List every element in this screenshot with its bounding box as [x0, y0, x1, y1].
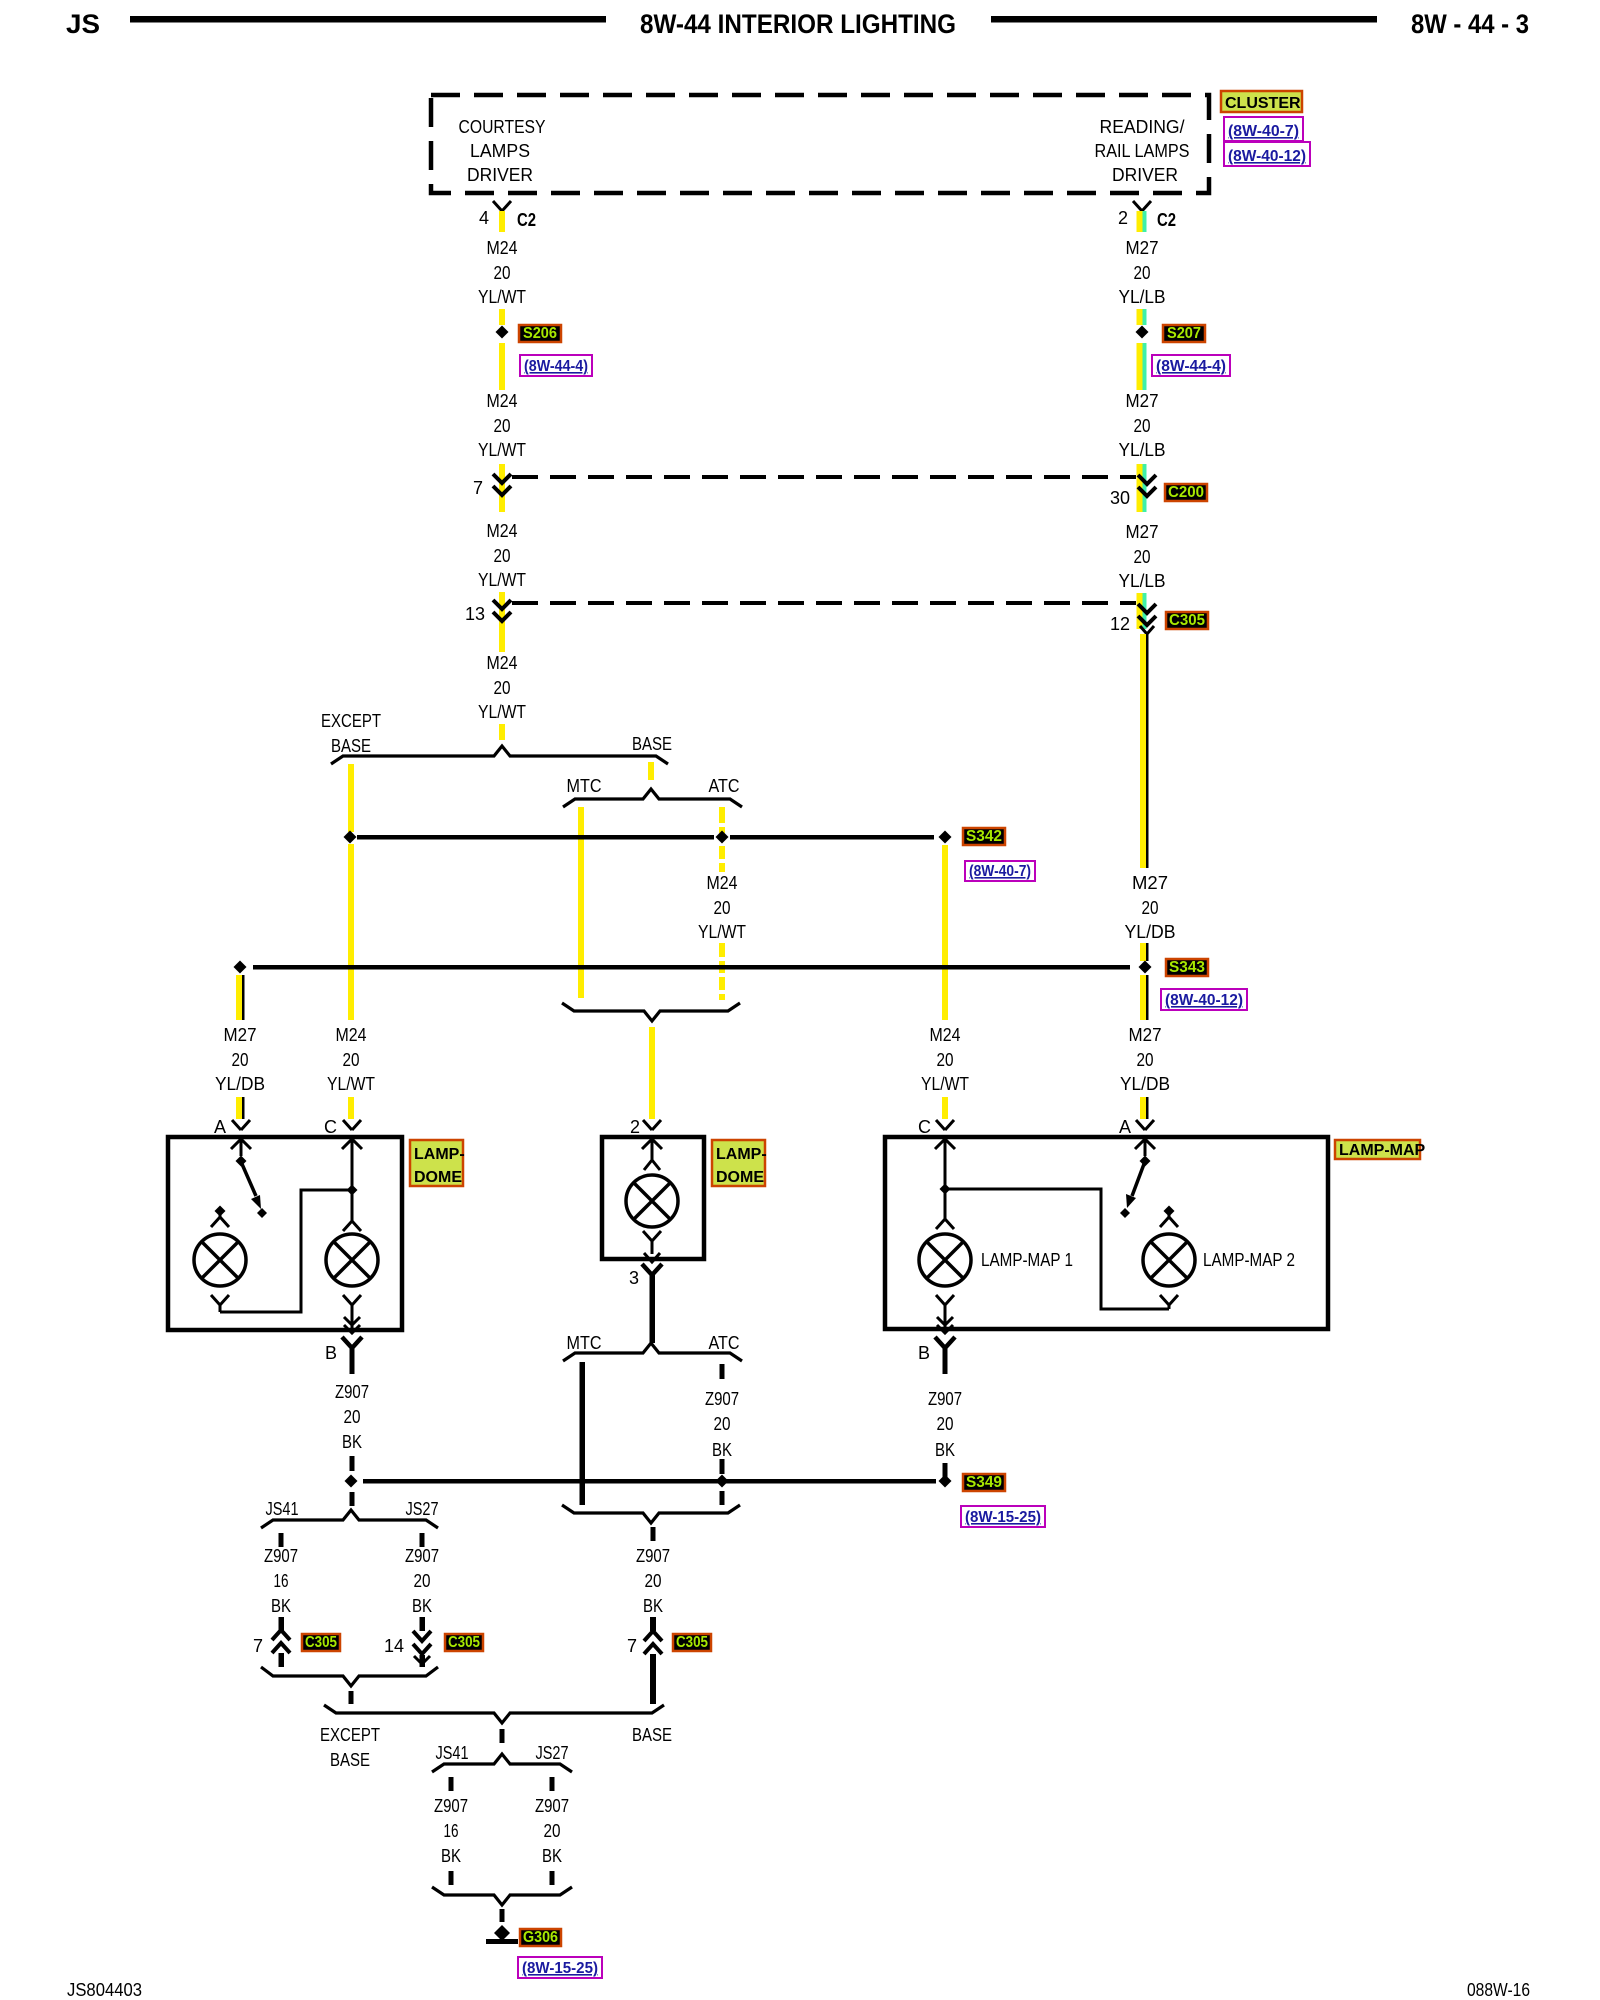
ground wire dash above S349 ATC: [720, 1459, 725, 1474]
svg-text:(8W-40-7): (8W-40-7): [1228, 123, 1299, 140]
svg-text:20: 20: [1137, 1050, 1154, 1070]
svg-text:16: 16: [274, 1571, 289, 1591]
link 8W-44-4 S207: [1152, 355, 1230, 376]
split brace MTC / ATC lower: [563, 1343, 742, 1361]
splice S349 junction left: [345, 1475, 358, 1488]
svg-text:G306: G306: [523, 1929, 558, 1946]
wire segment above C305: [499, 592, 505, 652]
pin 2 lamp-dome center: [643, 1120, 661, 1130]
svg-text:C200: C200: [1168, 484, 1204, 501]
svg-text:20: 20: [1134, 547, 1151, 567]
svg-text:14: 14: [384, 1636, 404, 1656]
lamp courtesy 1: [194, 1234, 246, 1286]
svg-text:20: 20: [414, 1571, 431, 1591]
connector C305 pin 12 chevrons: [1138, 604, 1156, 613]
pin C lamp-map: [936, 1120, 954, 1130]
switch blade lamp-dome: [242, 1164, 256, 1196]
svg-text:LAMP-MAP 1: LAMP-MAP 1: [981, 1250, 1073, 1270]
label LAMP-DOME center: [712, 1140, 767, 1186]
svg-text:20: 20: [714, 898, 731, 918]
svg-text:JS27: JS27: [406, 1499, 439, 1519]
svg-text:(8W-15-25): (8W-15-25): [965, 1509, 1041, 1526]
svg-text:M24: M24: [930, 1025, 961, 1045]
lamp map 2 bottom terminal: [1160, 1295, 1178, 1309]
pin 2 terminal inside: [642, 1139, 662, 1149]
svg-text:(8W-40-12): (8W-40-12): [1165, 992, 1243, 1009]
splice S349 junction right: [939, 1475, 952, 1488]
wire segment below S206: [499, 343, 505, 390]
pin C terminal inside lamp-map: [935, 1139, 955, 1149]
svg-text:READING/: READING/: [1100, 117, 1185, 137]
svg-text:M27: M27: [224, 1025, 257, 1045]
svg-text:(8W-40-7): (8W-40-7): [969, 863, 1031, 880]
svg-text:13: 13: [465, 604, 485, 624]
splice bus S349: [363, 1479, 936, 1484]
ground wire dash JS27 bottom: [550, 1777, 555, 1791]
svg-text:C305: C305: [305, 1634, 337, 1651]
svg-text:20: 20: [343, 1050, 360, 1070]
split brace JS41 / JS27 left: [261, 1510, 438, 1528]
svg-text:C305: C305: [448, 1634, 480, 1651]
connector C200 pin 30 chevrons: [1138, 475, 1156, 484]
lamp-dome center module box: [602, 1137, 704, 1259]
header rule left: [130, 16, 606, 23]
wire lamp1 to pin C riser: [220, 1190, 352, 1312]
svg-text:20: 20: [937, 1050, 954, 1070]
switch contact lamp-dome: [215, 1206, 226, 1217]
pin A terminal inside: [231, 1139, 251, 1149]
svg-text:7: 7: [627, 1636, 637, 1656]
label C200: [1165, 484, 1207, 501]
wire stub to lamp-dome pin A: [236, 1097, 242, 1119]
wire stub to lamp-map pin C: [942, 1097, 948, 1119]
ground wire dash below S349 ATC: [720, 1491, 725, 1505]
wire base branch stub: [648, 762, 654, 780]
wire ATC yellow dashed below S342: [719, 846, 725, 859]
svg-text:Z907: Z907: [636, 1546, 670, 1566]
connector C305 pin 13 chevrons: [493, 600, 511, 609]
svg-text:CLUSTER: CLUSTER: [1225, 95, 1301, 112]
splice S342 junction left: [344, 831, 357, 844]
splice bus S342: [357, 835, 714, 840]
svg-text:3: 3: [629, 1268, 639, 1288]
svg-text:M27: M27: [1132, 873, 1168, 893]
pin C lamp-dome: [343, 1120, 361, 1130]
svg-text:DOME: DOME: [716, 1169, 764, 1186]
connector C200 pin 7 chevrons: [493, 474, 511, 483]
link 8W-44-4 S206: [520, 355, 592, 376]
label S206: [519, 325, 561, 342]
svg-text:DRIVER: DRIVER: [1112, 165, 1178, 185]
wire M24 segment from C2: [499, 211, 505, 232]
wire M27 YL/DB right below S343: [1140, 975, 1146, 1020]
svg-text:A: A: [1119, 1117, 1131, 1137]
svg-text:BK: BK: [271, 1596, 291, 1616]
lamp dome center top terminal: [644, 1160, 660, 1170]
svg-text:M27: M27: [1126, 238, 1159, 258]
wire M27 YL/DB left segment: [236, 975, 242, 1020]
wire to lamp-dome pin 2: [649, 1027, 655, 1119]
label S207: [1163, 325, 1205, 342]
connector C2 pin 2: [1133, 201, 1151, 211]
svg-text:C: C: [324, 1117, 337, 1137]
wire segment below S207: [1137, 343, 1143, 390]
svg-text:EXCEPT: EXCEPT: [320, 1725, 380, 1745]
pin A terminal inside lamp-map: [1135, 1139, 1155, 1149]
svg-text:A: A: [214, 1117, 226, 1137]
lamp courtesy 2 bottom terminal: [343, 1295, 361, 1329]
ground wire dash JS41: [279, 1533, 284, 1547]
svg-text:8W-44 INTERIOR LIGHTING: 8W-44 INTERIOR LIGHTING: [640, 9, 956, 39]
svg-text:M27: M27: [1126, 391, 1159, 411]
wire segment above base split: [499, 724, 505, 740]
svg-text:8W - 44 - 3: 8W - 44 - 3: [1411, 9, 1529, 39]
svg-text:BK: BK: [441, 1846, 461, 1866]
svg-text:20: 20: [937, 1414, 954, 1434]
svg-text:20: 20: [544, 1821, 561, 1841]
svg-text:16: 16: [444, 1821, 459, 1841]
wire lamp-map C to lamp2 bottom: [945, 1189, 1169, 1309]
svg-text:S343: S343: [1169, 959, 1205, 976]
svg-text:088W-16: 088W-16: [1467, 1980, 1530, 2000]
dashed bus line C200: [512, 475, 1136, 479]
ground G306 symbol: [494, 1925, 510, 1941]
svg-text:C305: C305: [676, 1634, 708, 1651]
svg-text:(8W-44-4): (8W-44-4): [524, 358, 588, 375]
svg-text:JS41: JS41: [266, 1499, 299, 1519]
wire M24 except-base branch upper: [348, 764, 354, 832]
svg-text:MTC: MTC: [567, 776, 602, 796]
ground wire dash JS41 bottom: [449, 1777, 454, 1791]
svg-text:JS: JS: [66, 9, 100, 39]
wire MTC yellow: [578, 807, 584, 998]
wire ATC yellow dashed below label: [719, 943, 725, 957]
svg-text:YL/WT: YL/WT: [478, 570, 526, 590]
svg-text:ATC: ATC: [709, 1333, 740, 1353]
lamp courtesy 2 top terminal: [343, 1221, 361, 1231]
switch blade lamp-map: [1132, 1164, 1144, 1196]
label S343: [1166, 959, 1208, 976]
label C305 base: [673, 1634, 711, 1651]
switch contact lamp-map: [1164, 1206, 1175, 1217]
split brace except-base / base: [331, 746, 668, 764]
svg-text:YL/LB: YL/LB: [1119, 287, 1166, 307]
svg-text:YL/LB: YL/LB: [1119, 571, 1166, 591]
wire segment above C200 right: [1137, 464, 1143, 512]
header rule right: [991, 16, 1377, 23]
svg-text:Z907: Z907: [535, 1796, 569, 1816]
pin C terminal inside: [342, 1139, 362, 1149]
splice S342 junction right: [939, 831, 952, 844]
svg-text:(8W-44-4): (8W-44-4): [1156, 358, 1226, 375]
ground wire Z907 from pin 3: [650, 1273, 656, 1343]
lamp map 2: [1143, 1234, 1195, 1286]
merge brace MTC / ATC: [562, 1003, 740, 1021]
svg-text:BK: BK: [412, 1596, 432, 1616]
pin A lamp-map: [1136, 1120, 1154, 1130]
ground wire dash below merge left: [349, 1691, 354, 1704]
svg-text:S206: S206: [523, 325, 557, 342]
label C305 mid: [445, 1634, 483, 1651]
svg-text:Z907: Z907: [434, 1796, 468, 1816]
svg-text:12: 12: [1110, 614, 1130, 634]
lamp map 1 top terminal: [936, 1219, 954, 1229]
lamp-dome center exit chevron: [644, 1253, 660, 1262]
svg-text:LAMP-: LAMP-: [716, 1146, 767, 1163]
svg-text:Z907: Z907: [405, 1546, 439, 1566]
splice S343 junction left: [234, 961, 247, 974]
lamp-dome left module box: [168, 1137, 402, 1330]
lamp map 2 top terminal: [1160, 1214, 1178, 1227]
svg-text:BASE: BASE: [632, 734, 672, 754]
svg-text:BK: BK: [935, 1440, 955, 1460]
label CLUSTER: [1221, 91, 1302, 112]
wire S342-right to lamp-map yellow: [942, 845, 948, 1020]
lamp-map module box: [885, 1137, 1328, 1329]
svg-text:YL/WT: YL/WT: [327, 1074, 375, 1094]
svg-text:YL/DB: YL/DB: [215, 1074, 265, 1094]
svg-text:Z907: Z907: [264, 1546, 298, 1566]
svg-text:DOME: DOME: [414, 1169, 462, 1186]
svg-text:M24: M24: [487, 653, 518, 673]
label S342: [963, 828, 1005, 845]
svg-text:C2: C2: [517, 210, 536, 230]
svg-text:B: B: [325, 1343, 337, 1363]
label LAMP-DOME left: [410, 1140, 465, 1186]
svg-text:BASE: BASE: [330, 1750, 370, 1770]
ground wire dash above S349 left: [350, 1456, 355, 1471]
splice bus S343: [253, 965, 1130, 970]
lamp map 1 bottom terminal: [936, 1295, 954, 1329]
svg-text:BASE: BASE: [632, 1725, 672, 1745]
svg-text:Z907: Z907: [335, 1382, 369, 1402]
svg-text:B: B: [918, 1343, 930, 1363]
lamp map 1: [919, 1234, 971, 1286]
connector C305 pin 7 left: [279, 1617, 285, 1631]
wire segment above S207: [1137, 309, 1143, 325]
svg-text:M24: M24: [487, 521, 518, 541]
svg-text:LAMP-MAP 2: LAMP-MAP 2: [1203, 1250, 1295, 1270]
svg-text:S207: S207: [1167, 325, 1201, 342]
svg-text:(8W-40-12): (8W-40-12): [1228, 148, 1306, 165]
svg-text:JS41: JS41: [436, 1743, 469, 1763]
svg-text:M24: M24: [707, 873, 738, 893]
split brace JS41 / JS27 bottom: [432, 1754, 572, 1772]
lamp courtesy 1 bottom terminal: [211, 1295, 229, 1312]
connector C2 pin 4: [493, 201, 511, 211]
switch pivot lamp-dome: [236, 1156, 247, 1167]
label C305 left: [302, 1634, 340, 1651]
svg-text:YL/WT: YL/WT: [921, 1074, 969, 1094]
link 8W-40-7 cluster: [1224, 117, 1303, 141]
ground wire dash below S349 left: [350, 1492, 355, 1506]
splice S207: [1136, 326, 1149, 339]
svg-text:YL/LB: YL/LB: [1119, 440, 1166, 460]
svg-text:2: 2: [1118, 208, 1128, 228]
svg-text:DRIVER: DRIVER: [467, 165, 533, 185]
connector C305 pin 14 left: [420, 1617, 426, 1631]
merge brace JS41+JS27 left: [261, 1667, 438, 1686]
svg-text:MTC: MTC: [567, 1333, 602, 1353]
junction lamp-dome C: [347, 1185, 358, 1196]
lamp dome center bottom terminal: [643, 1231, 661, 1254]
svg-text:C2: C2: [1157, 210, 1176, 230]
wire M27 segment from C2: [1137, 211, 1143, 232]
svg-text:2: 2: [630, 1117, 640, 1137]
wire segment above S343 right: [1140, 943, 1146, 961]
svg-text:20: 20: [232, 1050, 249, 1070]
wire M27 YL/DB long segment below C305: [1140, 634, 1146, 868]
svg-text:M27: M27: [1129, 1025, 1162, 1045]
svg-text:M24: M24: [487, 391, 518, 411]
dashed bus line C305: [512, 601, 1136, 605]
ground wire dash JS41 lower: [449, 1871, 454, 1885]
wire segment above C305 right: [1137, 593, 1143, 629]
link 8W-15-25 S349: [961, 1506, 1045, 1527]
svg-text:20: 20: [344, 1407, 361, 1427]
svg-text:20: 20: [494, 546, 511, 566]
link 8W-40-12 cluster: [1224, 142, 1310, 166]
svg-text:LAMP-MAP: LAMP-MAP: [1339, 1142, 1426, 1159]
wire stub to lamp-map pin A: [1140, 1097, 1146, 1119]
svg-text:20: 20: [714, 1414, 731, 1434]
switch pivot lamp-map: [1140, 1156, 1151, 1167]
svg-text:BK: BK: [643, 1596, 663, 1616]
svg-text:4: 4: [479, 208, 489, 228]
svg-text:RAIL LAMPS: RAIL LAMPS: [1095, 141, 1190, 161]
svg-text:7: 7: [253, 1636, 263, 1656]
svg-text:S342: S342: [966, 828, 1002, 845]
label C305 right: [1166, 612, 1208, 629]
svg-text:20: 20: [494, 416, 511, 436]
svg-text:30: 30: [1110, 488, 1130, 508]
ground wire dash above G306: [500, 1909, 505, 1922]
wire stub to lamp-dome pin C: [348, 1097, 354, 1119]
wire except-base yellow through splices: [348, 844, 354, 1020]
pin B lamp-dome: [342, 1337, 362, 1348]
svg-text:7: 7: [473, 478, 483, 498]
svg-text:20: 20: [1142, 898, 1159, 918]
lamp dome center: [626, 1175, 678, 1227]
splice S206: [496, 326, 509, 339]
svg-text:20: 20: [1134, 416, 1151, 436]
svg-text:20: 20: [494, 678, 511, 698]
wire ATC yellow dashed upper: [719, 807, 725, 823]
splice S342 junction ATC: [716, 831, 729, 844]
svg-text:S349: S349: [966, 1474, 1002, 1491]
svg-text:JS804403: JS804403: [67, 1980, 142, 2000]
svg-text:20: 20: [645, 1571, 662, 1591]
wire segment above C200: [499, 464, 505, 512]
lamp-map pin B exit chevron: [937, 1317, 953, 1325]
svg-text:YL/DB: YL/DB: [1120, 1074, 1170, 1094]
merge brace MTC+ATC lower: [562, 1505, 740, 1523]
ground wire dash JS27: [420, 1533, 425, 1547]
link 8W-40-7 S342: [965, 861, 1035, 881]
svg-text:ATC: ATC: [709, 776, 740, 796]
ground wire ATC dash: [720, 1364, 725, 1379]
svg-text:BK: BK: [342, 1432, 362, 1452]
svg-text:BK: BK: [712, 1440, 732, 1460]
merge brace except-base / base bottom: [324, 1705, 664, 1723]
svg-text:YL/WT: YL/WT: [478, 287, 526, 307]
link 8W-15-25 G306: [518, 1957, 602, 1978]
pin 3 lamp-dome center: [642, 1264, 662, 1275]
pin B lamp-map: [935, 1337, 955, 1348]
merge brace to ground: [432, 1887, 572, 1905]
junction lamp-map C: [940, 1184, 951, 1195]
svg-text:YL/DB: YL/DB: [1125, 922, 1176, 942]
svg-text:C305: C305: [1169, 612, 1205, 629]
label S349: [963, 1474, 1005, 1491]
splice S349 junction ATC: [716, 1475, 729, 1488]
svg-text:Z907: Z907: [705, 1389, 739, 1409]
svg-text:YL/WT: YL/WT: [698, 922, 746, 942]
label G306: [520, 1929, 561, 1946]
cluster module dashed box: [431, 95, 1209, 193]
svg-text:LAMPS: LAMPS: [470, 141, 530, 161]
pin A lamp-dome: [232, 1120, 250, 1130]
label LAMP-MAP: [1335, 1140, 1426, 1159]
splice S343 junction right: [1139, 961, 1152, 974]
svg-text:JS27: JS27: [536, 1743, 569, 1763]
ground wire dash JS27 lower: [550, 1871, 555, 1885]
svg-text:(8W-15-25): (8W-15-25): [522, 1960, 598, 1977]
ground wire dash below merge center: [651, 1527, 656, 1541]
svg-text:M24: M24: [487, 238, 518, 258]
svg-text:COURTESY: COURTESY: [459, 117, 546, 137]
ground wire dash below big merge: [500, 1729, 505, 1743]
lamp courtesy 2: [326, 1234, 378, 1286]
svg-text:20: 20: [1134, 263, 1151, 283]
connector C305 pin 7 base: [650, 1617, 656, 1631]
split brace MTC / ATC: [563, 789, 742, 807]
ground wire dash above S349 right: [943, 1463, 948, 1478]
lamp courtesy 1 top terminal: [211, 1214, 229, 1227]
svg-text:YL/WT: YL/WT: [478, 702, 526, 722]
ground wire MTC solid: [580, 1362, 586, 1505]
svg-text:EXCEPT: EXCEPT: [321, 711, 381, 731]
wire segment above S206: [499, 309, 505, 325]
svg-text:M24: M24: [336, 1025, 367, 1045]
link 8W-40-12 S343: [1161, 989, 1247, 1010]
svg-text:BK: BK: [542, 1846, 562, 1866]
lamp-dome pin B exit chevron: [344, 1317, 360, 1325]
svg-text:LAMP-: LAMP-: [414, 1146, 465, 1163]
svg-text:C: C: [918, 1117, 931, 1137]
svg-text:YL/WT: YL/WT: [478, 440, 526, 460]
svg-text:M27: M27: [1126, 522, 1159, 542]
svg-text:BASE: BASE: [331, 736, 371, 756]
svg-text:Z907: Z907: [928, 1389, 962, 1409]
svg-text:20: 20: [494, 263, 511, 283]
